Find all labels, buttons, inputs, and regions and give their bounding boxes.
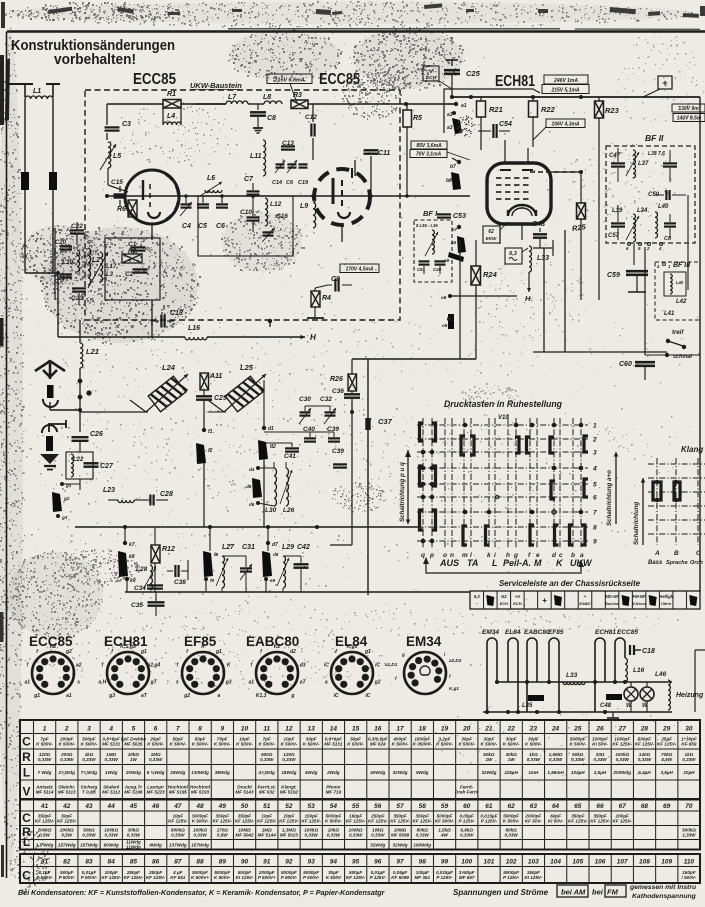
label box +A ECH xyxy=(423,66,439,81)
svg-text:EF85: EF85 xyxy=(548,629,564,636)
resistor R26 with X xyxy=(348,374,357,391)
svg-text:L16: L16 xyxy=(633,667,645,674)
node at x58 xyxy=(56,271,60,275)
pin d2 blob xyxy=(258,440,268,460)
svg-text:a2: a2 xyxy=(76,663,82,669)
coil L1 xyxy=(25,96,53,99)
svg-text:C23: C23 xyxy=(71,295,83,302)
svg-text:K 500V-: K 500V- xyxy=(169,741,186,746)
svg-text:L: L xyxy=(23,766,30,780)
svg-text:C26: C26 xyxy=(90,431,103,438)
svg-text:6 ⅝Wdg: 6 ⅝Wdg xyxy=(147,770,165,775)
svg-text:L33: L33 xyxy=(566,672,578,679)
ground symbol under jack xyxy=(40,454,59,464)
svg-text:0,33W: 0,33W xyxy=(60,757,74,762)
svg-text:102: 102 xyxy=(506,858,517,865)
svg-text:Heizung: Heizung xyxy=(676,692,704,699)
svg-text:C29: C29 xyxy=(214,395,227,402)
coil L22 xyxy=(71,454,73,477)
svg-text:g2,g4: g2,g4 xyxy=(146,663,160,669)
svg-text:61: 61 xyxy=(485,803,493,810)
svg-text:86: 86 xyxy=(152,858,160,865)
R4 ground bar xyxy=(307,317,324,319)
terminal blob right xyxy=(49,172,57,190)
svg-text:0,33W: 0,33W xyxy=(549,757,563,762)
triode tube ECC85b envelope dashed xyxy=(314,169,370,225)
svg-text:215V 5,1mA: 215V 5,1mA xyxy=(550,88,579,94)
svg-text:a2,D2: a2,D2 xyxy=(449,658,462,663)
svg-text:5.Norm: 5.Norm xyxy=(632,601,646,606)
svg-text:K 500V-: K 500V- xyxy=(36,741,53,746)
BFII coil L37 xyxy=(633,150,636,178)
svg-text:P 500V+: P 500V+ xyxy=(258,875,276,880)
pin b8 blob xyxy=(451,172,461,190)
svg-text:215V 6,6mA: 215V 6,6mA xyxy=(273,78,304,84)
svg-text:83: 83 xyxy=(85,858,93,865)
wire a1 into rail xyxy=(444,103,456,105)
tube ECC85b plate top lead xyxy=(351,168,353,178)
pin k8 bracket xyxy=(118,551,128,577)
arrow to H heater xyxy=(528,272,530,292)
svg-text:+: + xyxy=(542,596,547,605)
long vertical x368 xyxy=(367,359,369,595)
svg-text:KF 500V-: KF 500V- xyxy=(435,818,455,823)
pin f2 blob bracket xyxy=(196,443,206,464)
voltage label 215V 6,6mA xyxy=(267,74,312,84)
svg-text:0,33W: 0,33W xyxy=(82,833,96,838)
capacitor C7 xyxy=(252,183,254,190)
tetrode tube ECH81 envelope xyxy=(487,163,551,224)
svg-text:L3: L3 xyxy=(106,272,114,278)
footer bei AM box xyxy=(557,885,588,897)
svg-text:C2: C2 xyxy=(125,271,134,278)
svg-text:C51: C51 xyxy=(417,267,426,272)
svg-text:K2: K2 xyxy=(50,644,57,650)
svg-text:MF 5223: MF 5223 xyxy=(147,790,166,795)
stub R1-L4 left xyxy=(162,104,164,125)
svg-text:C60: C60 xyxy=(619,361,632,368)
svg-text:a1: a1 xyxy=(461,103,467,109)
table band1 column lines xyxy=(33,720,35,799)
capacitor C29 xyxy=(196,395,212,397)
svg-text:L1: L1 xyxy=(33,88,41,95)
tube ECC85a anode bar xyxy=(142,180,144,200)
svg-text:1W: 1W xyxy=(508,757,516,762)
svg-text:g1: g1 xyxy=(215,649,222,655)
svg-text:MF 5023: MF 5023 xyxy=(280,833,299,838)
capacitor C22 xyxy=(70,229,84,231)
svg-text:3: 3 xyxy=(87,725,91,732)
svg-text:1,56mH: 1,56mH xyxy=(547,770,564,775)
Klang grid verticals xyxy=(657,458,698,545)
svg-text:7: 7 xyxy=(176,725,180,732)
ECH81 heptode grid dashes xyxy=(496,177,502,179)
svg-text:L16: L16 xyxy=(188,325,200,332)
svg-text:L30: L30 xyxy=(265,507,277,514)
svg-text:L7: L7 xyxy=(228,94,237,101)
svg-text:k7: k7 xyxy=(129,542,135,548)
svg-text:L: L xyxy=(23,835,30,849)
wire oscillator box bottom lead xyxy=(151,300,153,337)
resistor R5 xyxy=(406,104,408,110)
Schaltrichtung arrow Klang xyxy=(642,478,644,545)
svg-text:C3: C3 xyxy=(122,121,131,128)
table band2 column lines xyxy=(33,800,35,850)
svg-text:d7: d7 xyxy=(272,542,278,548)
svg-text:L28: L28 xyxy=(136,566,148,573)
svg-text:C57: C57 xyxy=(608,233,620,239)
svg-text:28: 28 xyxy=(640,725,649,732)
svg-text:L5: L5 xyxy=(113,153,121,160)
socket ECC85 circle xyxy=(32,652,74,694)
pointer 6,3 to heater xyxy=(522,248,528,252)
service strip boxes xyxy=(470,591,700,609)
svg-text:BF III: BF III xyxy=(673,262,691,269)
matrix contact rows2-3 col f xyxy=(527,437,531,453)
BFIII small box with coil xyxy=(664,272,686,296)
svg-text:KF 125V-: KF 125V- xyxy=(612,741,632,746)
capacitor C25 xyxy=(451,60,453,66)
svg-text:L12: L12 xyxy=(270,201,282,208)
wire antenna right down xyxy=(52,99,54,172)
svg-text:L9: L9 xyxy=(300,203,308,210)
svg-text:P 500V-: P 500V- xyxy=(36,875,53,880)
svg-text:R1: R1 xyxy=(167,91,176,98)
capacitor C1 xyxy=(131,246,146,248)
svg-text:52: 52 xyxy=(285,803,293,810)
voltage label 106V 4,3mA xyxy=(546,119,585,128)
svg-text:18: 18 xyxy=(419,725,427,732)
svg-text:b8: b8 xyxy=(446,178,452,184)
capacitor C18 heater xyxy=(624,658,626,668)
svg-text:12: 12 xyxy=(285,725,293,732)
svg-text:Schaltrichtung a+o: Schaltrichtung a+o xyxy=(606,470,613,526)
svg-text:C19: C19 xyxy=(298,180,309,186)
svg-text:0,33W: 0,33W xyxy=(304,833,318,838)
svg-text:Peil-A.: Peil-A. xyxy=(503,558,531,568)
table band1 frame xyxy=(20,720,700,799)
svg-text:57: 57 xyxy=(396,803,404,810)
svg-text:K 500V+: K 500V+ xyxy=(191,875,209,880)
capacitor C9 xyxy=(334,279,336,292)
svg-text:Orch: Orch xyxy=(690,560,703,566)
svg-text:FM-NF: FM-NF xyxy=(633,594,646,599)
svg-text:KF 125V-: KF 125V- xyxy=(635,741,655,746)
trimmer C16 xyxy=(263,231,274,233)
svg-text:UKW-Baustein: UKW-Baustein xyxy=(190,81,242,90)
svg-text:C30: C30 xyxy=(299,396,311,403)
pin f9 xyxy=(204,577,208,581)
svg-text:MF 5195: MF 5195 xyxy=(169,790,188,795)
BF I coil with arrow xyxy=(432,230,434,254)
resistor R24 with X xyxy=(471,266,481,285)
svg-text:C48: C48 xyxy=(600,703,612,709)
svg-text:68: 68 xyxy=(641,803,649,810)
svg-text:EL84: EL84 xyxy=(505,629,521,636)
table band3 frame xyxy=(20,854,700,883)
svg-text:a7: a7 xyxy=(452,227,458,232)
trimmer C8b xyxy=(288,163,297,165)
border top line xyxy=(7,30,705,32)
svg-text:f9: f9 xyxy=(210,578,215,583)
resistor L35 on vertical xyxy=(528,695,544,701)
long vertical right xyxy=(699,97,701,592)
svg-text:L37: L37 xyxy=(638,161,649,167)
svg-text:L35: L35 xyxy=(522,703,533,709)
svg-text:b7: b7 xyxy=(450,164,456,170)
svg-text:L10: L10 xyxy=(62,259,74,266)
wire vertical x544 xyxy=(543,248,545,352)
svg-text:9: 9 xyxy=(220,725,224,732)
matrix vertical dash-dot lines xyxy=(423,418,581,548)
pointer from 70V label xyxy=(447,152,470,160)
smudge near a3 xyxy=(457,115,475,136)
svg-text:C13: C13 xyxy=(282,140,294,147)
svg-text:C9: C9 xyxy=(331,276,340,283)
voltage label 140V right xyxy=(673,114,705,122)
svg-text:d2: d2 xyxy=(290,649,296,655)
svg-text:25: 25 xyxy=(573,725,582,732)
svg-text:P 500V-: P 500V- xyxy=(81,875,98,880)
capacitor C3 xyxy=(105,126,120,128)
svg-text:iC: iC xyxy=(365,693,370,699)
capacitor C15 xyxy=(119,186,121,192)
svg-text:88: 88 xyxy=(196,858,204,865)
svg-text:60: 60 xyxy=(463,803,471,810)
plus terminal box xyxy=(658,76,672,89)
svg-text:94: 94 xyxy=(330,858,338,865)
svg-text:K 500V-: K 500V- xyxy=(481,741,498,746)
svg-text:C21: C21 xyxy=(54,276,66,282)
svg-text:89: 89 xyxy=(219,858,227,865)
wire grid feed C3 column xyxy=(106,104,108,125)
svg-text:46: 46 xyxy=(151,803,160,810)
arrow to H xyxy=(207,336,305,338)
coil L33 heater xyxy=(529,246,532,272)
svg-text:MF 5025: MF 5025 xyxy=(124,741,143,746)
svg-text:K 500V-: K 500V- xyxy=(192,741,209,746)
svg-text:47: 47 xyxy=(173,803,182,810)
ECH81 bottom leads xyxy=(499,224,501,244)
svg-text:50: 50 xyxy=(241,803,249,810)
svg-text:K: K xyxy=(227,663,231,669)
svg-text:Kathodenspannung: Kathodenspannung xyxy=(632,893,697,900)
svg-text:L27: L27 xyxy=(222,544,235,551)
svg-text:P 125V-: P 125V- xyxy=(481,818,498,823)
svg-text:R2: R2 xyxy=(128,248,137,255)
svg-text:EM34: EM34 xyxy=(406,634,442,649)
svg-text:91: 91 xyxy=(263,858,271,865)
svg-text:105: 105 xyxy=(572,858,583,865)
svg-text:MF 5143: MF 5143 xyxy=(235,790,254,795)
svg-text:2: 2 xyxy=(64,725,69,732)
resistor A11 with X xyxy=(200,373,209,390)
svg-text:17: 17 xyxy=(396,725,404,732)
node dots antenna bus xyxy=(78,379,83,384)
svg-text:70: 70 xyxy=(685,803,693,810)
svg-text:a: a xyxy=(217,693,220,699)
pin f8 bracket xyxy=(203,551,213,577)
svg-text:MF 5131: MF 5131 xyxy=(324,741,343,746)
svg-text:32Wdg: 32Wdg xyxy=(370,842,385,847)
antenna input terminals xyxy=(7,83,33,85)
svg-text:100: 100 xyxy=(461,858,472,865)
svg-text:KF 659: KF 659 xyxy=(681,741,697,746)
coil L12 xyxy=(265,198,268,226)
matrix horizontal dash-dot lines xyxy=(417,425,588,541)
svg-text:0,33W: 0,33W xyxy=(193,833,207,838)
svg-text:L46: L46 xyxy=(655,671,667,678)
wire trimmer bus xyxy=(290,405,352,407)
svg-text:82: 82 xyxy=(63,858,71,865)
svg-text:40Wdg: 40Wdg xyxy=(369,770,385,775)
svg-text:C18: C18 xyxy=(170,310,183,317)
svg-text:Ufere: Ufere xyxy=(661,601,672,606)
svg-text:R24: R24 xyxy=(483,270,498,279)
svg-text:4,5W: 4,5W xyxy=(660,757,672,762)
svg-text:g: g xyxy=(290,693,294,699)
svg-text:C7: C7 xyxy=(244,176,254,183)
svg-text:K 500V-: K 500V- xyxy=(147,741,164,746)
matrix contact rows2-3 col a xyxy=(584,436,588,452)
svg-text:f8: f8 xyxy=(214,552,219,557)
left margin dark marks xyxy=(0,55,4,125)
svg-text:4W: 4W xyxy=(440,833,449,838)
BF I capacitor C51 xyxy=(419,260,430,262)
svg-text:KF 125V-: KF 125V- xyxy=(590,818,610,823)
svg-text:K 0500V-: K 0500V- xyxy=(413,741,433,746)
svg-text:Schaltrichtung p u q: Schaltrichtung p u q xyxy=(399,462,406,522)
svg-text:0,33W: 0,33W xyxy=(460,833,474,838)
BF II dashed box xyxy=(606,146,695,243)
svg-text:EABC: EABC xyxy=(579,601,590,606)
wire rail y104 mid xyxy=(195,103,226,105)
svg-text:5: 5 xyxy=(593,482,597,489)
svg-text:Schaltrichtung: Schaltrichtung xyxy=(633,501,640,545)
svg-text:MF 719: MF 719 xyxy=(326,790,342,795)
svg-text:1W: 1W xyxy=(485,757,493,762)
svg-text:C: C xyxy=(22,869,31,883)
node on dashed line xyxy=(268,319,272,323)
svg-text:0,33W: 0,33W xyxy=(38,757,52,762)
svg-text:101: 101 xyxy=(483,858,494,865)
svg-text:gT: gT xyxy=(150,679,158,685)
svg-text:45: 45 xyxy=(129,803,138,810)
svg-text:7 Wdg: 7 Wdg xyxy=(38,770,52,775)
socket EABC80 circle xyxy=(256,652,298,694)
svg-text:A: A xyxy=(654,550,660,557)
svg-text:41: 41 xyxy=(40,803,49,810)
svg-text:V: V xyxy=(22,785,30,799)
coil L6 with arrow xyxy=(205,190,222,193)
Klang contacts xyxy=(653,482,657,500)
svg-text:B: B xyxy=(674,550,679,557)
label box 62 EKW xyxy=(483,226,500,243)
tube ECC85b grid dashes xyxy=(341,180,343,186)
wire tube to R25 xyxy=(551,171,581,173)
svg-text:e9: e9 xyxy=(270,578,276,583)
svg-text:14: 14 xyxy=(330,725,338,732)
svg-text:C16: C16 xyxy=(276,213,288,220)
svg-text:7¼Wdg: 7¼Wdg xyxy=(81,770,98,775)
svg-text:MF 5131: MF 5131 xyxy=(102,741,121,746)
svg-text:K 500V-: K 500V- xyxy=(569,741,586,746)
svg-text:P 500V-: P 500V- xyxy=(281,875,298,880)
svg-text:8 L35 - L36: 8 L35 - L36 xyxy=(416,223,438,228)
capacitor C11 xyxy=(370,156,372,196)
svg-text:MF 5112: MF 5112 xyxy=(102,790,120,795)
trimmer C4 xyxy=(181,203,192,205)
wire g-column xyxy=(79,479,81,490)
svg-text:27: 27 xyxy=(618,725,627,732)
coil L16 heater xyxy=(625,658,627,682)
voltage label 70V 3,1mA xyxy=(410,150,447,158)
svg-text:iC: iC xyxy=(334,693,339,699)
svg-text:M: M xyxy=(534,558,542,568)
svg-text:4Wdg: 4Wdg xyxy=(304,770,318,775)
svg-text:KF 125V-: KF 125V- xyxy=(368,818,388,823)
svg-text:g2: g2 xyxy=(63,496,70,501)
svg-text:R22: R22 xyxy=(541,105,556,114)
svg-text:0,33W: 0,33W xyxy=(171,833,185,838)
wire schmal switch xyxy=(665,353,669,357)
svg-text:5: 5 xyxy=(132,725,136,732)
resistor R4 with X xyxy=(311,291,320,307)
svg-text:137Wdg: 137Wdg xyxy=(169,842,187,847)
svg-text:K 500V-: K 500V- xyxy=(281,741,298,746)
main wire y196 xyxy=(107,195,470,197)
svg-text:0,33W: 0,33W xyxy=(260,757,274,762)
heater top connections xyxy=(491,638,493,642)
svg-text:C4: C4 xyxy=(182,223,191,230)
svg-text:140V 8,5m: 140V 8,5m xyxy=(677,116,702,122)
wire L30 L26 connections xyxy=(258,467,274,469)
svg-text:AUS: AUS xyxy=(439,558,459,568)
matrix contacts row1-2 cols q p xyxy=(420,423,424,441)
coil L17 L3 with arrow xyxy=(100,252,103,282)
svg-text:KF 125V-: KF 125V- xyxy=(301,818,321,823)
svg-text:81: 81 xyxy=(41,858,49,865)
svg-text:KF 125V-: KF 125V- xyxy=(612,818,632,823)
svg-text:10: 10 xyxy=(241,725,249,732)
svg-text:K 500V-: K 500V- xyxy=(214,741,231,746)
svg-text:BF II: BF II xyxy=(645,133,664,143)
wire L7-L8 xyxy=(248,103,264,105)
svg-text:2: 2 xyxy=(592,437,597,444)
svg-text:KF 125V-: KF 125V- xyxy=(213,818,233,823)
svg-text:L26: L26 xyxy=(283,507,295,514)
svg-text:92: 92 xyxy=(285,858,293,865)
wire ferrite bus xyxy=(80,411,148,413)
svg-text:2: 2 xyxy=(646,246,650,251)
svg-text:P 500V-: P 500V- xyxy=(303,875,320,880)
wire left column down xyxy=(459,240,461,359)
ground stub heater xyxy=(612,712,614,718)
svg-text:KF 125V-: KF 125V- xyxy=(390,818,410,823)
svg-text:C: C xyxy=(22,811,31,825)
ferrite loop L25 xyxy=(225,375,264,412)
svg-text:ECH: ECH xyxy=(500,601,509,606)
capacitor C21 xyxy=(60,273,72,275)
svg-text:d5: d5 xyxy=(246,484,252,489)
svg-text:0,33W: 0,33W xyxy=(327,833,341,838)
svg-text:95: 95 xyxy=(352,858,360,865)
table band1 row lines xyxy=(20,733,700,735)
svg-text:18Wdg: 18Wdg xyxy=(281,770,296,775)
svg-text:KF 125V-: KF 125V- xyxy=(235,818,255,823)
svg-text:C10: C10 xyxy=(240,209,252,216)
svg-text:130V 9m: 130V 9m xyxy=(678,106,699,112)
